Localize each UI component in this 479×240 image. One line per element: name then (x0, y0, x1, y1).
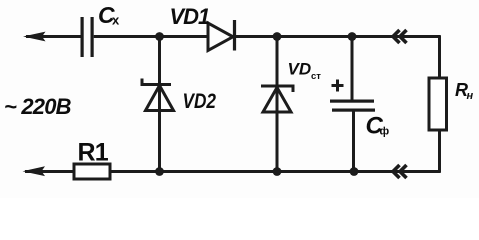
svg-text:н: н (467, 90, 474, 102)
capacitor Cf (polarized) (330, 100, 374, 103)
diode VD1 (208, 20, 235, 51)
node junction bottom C (350, 167, 359, 176)
node junction top B (273, 32, 282, 41)
wire branch VD2 vertical (158, 37, 161, 172)
wire branch VDst vertical (276, 37, 279, 172)
capacitor C_x (81, 17, 84, 57)
wire branch Cf upper (351, 37, 354, 101)
wire branch Cf lower (352, 112, 355, 172)
plus sign (332, 80, 344, 92)
break mark bottom (chevrons) (393, 165, 407, 178)
svg-text:~ 220В: ~ 220В (4, 94, 72, 119)
arrow top-left (input terminal) (23, 32, 46, 42)
zener diode VD2 (142, 79, 174, 111)
node junction bottom B (273, 167, 282, 176)
svg-text:x: x (112, 13, 120, 28)
wire top rail left segment (26, 35, 82, 38)
svg-text:VD1: VD1 (170, 4, 211, 29)
node junction bottom A (155, 167, 164, 176)
resistor R1 (74, 164, 110, 179)
wire right rail lower (438, 130, 441, 173)
zener diode VDst (261, 86, 293, 112)
arrow bottom-left (input terminal) (23, 166, 46, 176)
node junction top A (155, 32, 164, 41)
wire bottom rail left segment (25, 170, 74, 173)
wire top rail: VD1 to right corner (235, 35, 440, 38)
node junction top C (348, 32, 357, 41)
svg-text:VD: VD (288, 60, 312, 79)
break mark top (chevrons) (393, 30, 407, 43)
svg-text:ф: ф (380, 126, 390, 138)
wire top rail: Cx to VD1 (94, 35, 208, 38)
svg-text:ст: ст (311, 71, 321, 82)
wire bottom rail right segment (110, 170, 440, 173)
wire right rail upper (438, 35, 441, 78)
svg-text:VD2: VD2 (183, 89, 217, 113)
resistor Rn (429, 78, 447, 130)
svg-text:R1: R1 (78, 139, 109, 167)
